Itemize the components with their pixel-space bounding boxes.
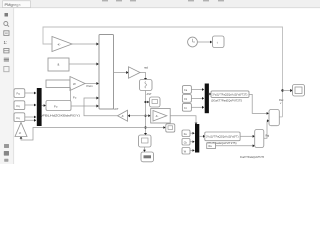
wire: branch to scope — [283, 90, 291, 92]
clock block — [188, 37, 198, 47]
left palette toolbar — [0, 8, 14, 164]
wire: long branch left to gain U path — [21, 128, 146, 141]
wire: branch right to display E — [146, 127, 164, 129]
wire: F2 output to selector P2 — [240, 135, 253, 137]
wire: K1 output to plant input 1 — [72, 43, 97, 45]
svg-text:W: W — [73, 82, 76, 86]
wire: subsystem Fu output to plant input 5 — [71, 105, 97, 107]
gain rad (small, points right) — [129, 67, 141, 78]
function block F1 — [211, 91, 249, 98]
canvas background — [0, 0, 320, 164]
svg-text:rad: rad — [144, 65, 148, 69]
node: branch to display B — [144, 101, 146, 103]
display block C — [139, 135, 152, 147]
plant block (large) — [99, 35, 114, 110]
source block s2 — [14, 101, 25, 110]
toolbar icon remnants at very top edge — [102, 0, 224, 1]
function block F2 — [205, 132, 240, 141]
display block E — [166, 124, 175, 132]
wire: mux1 output to subsystem Fu — [42, 105, 44, 107]
node: branch at y=127.5 — [144, 126, 146, 128]
source block t3 — [182, 103, 191, 111]
svg-text:-K-: -K- — [57, 42, 61, 46]
wire: boxed gain output to mux2 — [170, 116, 196, 123]
wire s1 to mux1 — [25, 92, 35, 94]
palette icons top — [4, 13, 10, 62]
boxed gain (slider gain) — [151, 109, 171, 124]
wire: pulse source down to triggered subsystem — [70, 88, 72, 101]
wire: mux2 output to function F2 — [199, 135, 203, 137]
wire t3 to mux3 — [191, 106, 202, 108]
wire u3 to mux2 — [190, 149, 193, 151]
svg-text:xOT: xOT — [114, 107, 119, 111]
source block t2 — [182, 95, 191, 103]
wire: selector output into loop — [279, 116, 282, 118]
svg-text:3*u(1)*TFaQ2Qa*u(3)*a5*T2T): 3*u(1)*TFaQ2Qa*u(3)*a5*T2T) — [212, 94, 247, 97]
wire: stub to display B — [146, 101, 148, 103]
svg-text:-K-: -K- — [155, 115, 159, 118]
gain U (points up) — [15, 123, 27, 137]
source block u1 — [182, 130, 190, 137]
constant block Ra — [207, 143, 216, 149]
svg-text:a: a — [58, 63, 60, 67]
svg-text:1:: 1: — [4, 40, 8, 45]
block t (to workspace) — [213, 36, 225, 48]
svg-text:AST: AST — [147, 92, 152, 96]
source block u3 — [182, 148, 190, 155]
svg-text:3*u(1)*TFaQ2Qa*u(3)*a5*T): 3*u(1)*TFaQ2Qa*u(3)*a5*T) — [206, 136, 239, 139]
wire: main vertical distribution — [145, 91, 147, 134]
selector P2 (portrait) — [255, 130, 264, 148]
svg-text:Raj: Raj — [266, 135, 270, 138]
svg-text:-K: -K — [121, 114, 124, 118]
source block s3 — [14, 113, 25, 122]
wire u1 to mux2 — [190, 132, 193, 134]
wire t2 to mux3 — [191, 97, 202, 99]
wire: mux3 output to function F1 — [208, 93, 211, 95]
gain K1 (top-left, points right) — [52, 37, 72, 52]
wire t1 to mux3 — [191, 89, 202, 91]
gain W (points right) — [70, 77, 85, 91]
top toolbar strip — [0, 0, 320, 8]
svg-text:3GaXT7PaxEQsFVfT2T5: 3GaXT7PaxEQsFVfT2T5 — [240, 156, 265, 159]
svg-text:PMgreg×: PMgreg× — [5, 2, 22, 7]
wire: branch right to boxed gain — [146, 115, 149, 117]
node: loop branch junction — [281, 89, 283, 91]
wire s2 to mux1 — [25, 104, 35, 106]
wire: plant output to gain rad — [114, 72, 127, 74]
source block s1 — [14, 89, 25, 98]
constant block a — [48, 58, 69, 71]
wire: C down to D — [144, 147, 146, 150]
svg-text:Fu: Fu — [73, 96, 77, 100]
mux2 (black bar, bottom-right group) — [195, 124, 199, 153]
svg-text:Fu: Fu — [54, 104, 58, 108]
wire: Ra output to selector P2 — [216, 145, 254, 147]
wire: gain rad to integrator A — [140, 73, 146, 79]
svg-text:t: t — [217, 41, 218, 45]
node: branch to gains at y=115.7 — [144, 115, 146, 117]
display block B — [150, 97, 161, 107]
document tab — [3, 1, 31, 8]
wire: branch left to gain L — [130, 115, 146, 117]
wire: loop from lower gain into plant input 4 — [84, 98, 118, 116]
svg-text:-K: -K — [19, 131, 22, 135]
source block t1 — [182, 86, 191, 94]
wire s3 to mux1 — [25, 116, 35, 118]
source block u2 — [182, 139, 190, 146]
integrator block A — [140, 80, 153, 91]
wire: gain W output to plant input 3 — [85, 83, 97, 85]
mux3 (black bar, top-right group) — [205, 84, 209, 114]
svg-text:Pwm: Pwm — [87, 84, 94, 88]
wire: big feedback loop from selector junction to gain K1 — [43, 27, 283, 117]
gain L (points left) — [118, 110, 128, 121]
svg-text:PwFBLHdZGKBdsRGY): PwFBLHdZGKBdsRGY) — [37, 114, 80, 118]
sink block D — [141, 152, 154, 162]
source block (pulse) — [46, 80, 70, 88]
wire: P2 output up to selector P1 — [264, 121, 268, 138]
wire: clock to block t — [197, 41, 210, 43]
mux1 (black bar) — [37, 88, 42, 126]
wire: constant to plant input 2 — [69, 63, 97, 65]
subsystem Fu — [46, 101, 71, 111]
wire u2 to mux2 — [190, 141, 193, 143]
wire: F1 output to selector P1 — [249, 94, 267, 113]
scope block — [293, 85, 305, 97]
selector P1 (portrait) — [269, 110, 279, 126]
svg-text:(3GaXT7PaxEQsFVfT2T5: (3GaXT7PaxEQsFVfT2T5 — [211, 99, 243, 102]
wire: gain U output up into mux1 — [21, 120, 34, 122]
palette icons bottom — [4, 144, 9, 162]
